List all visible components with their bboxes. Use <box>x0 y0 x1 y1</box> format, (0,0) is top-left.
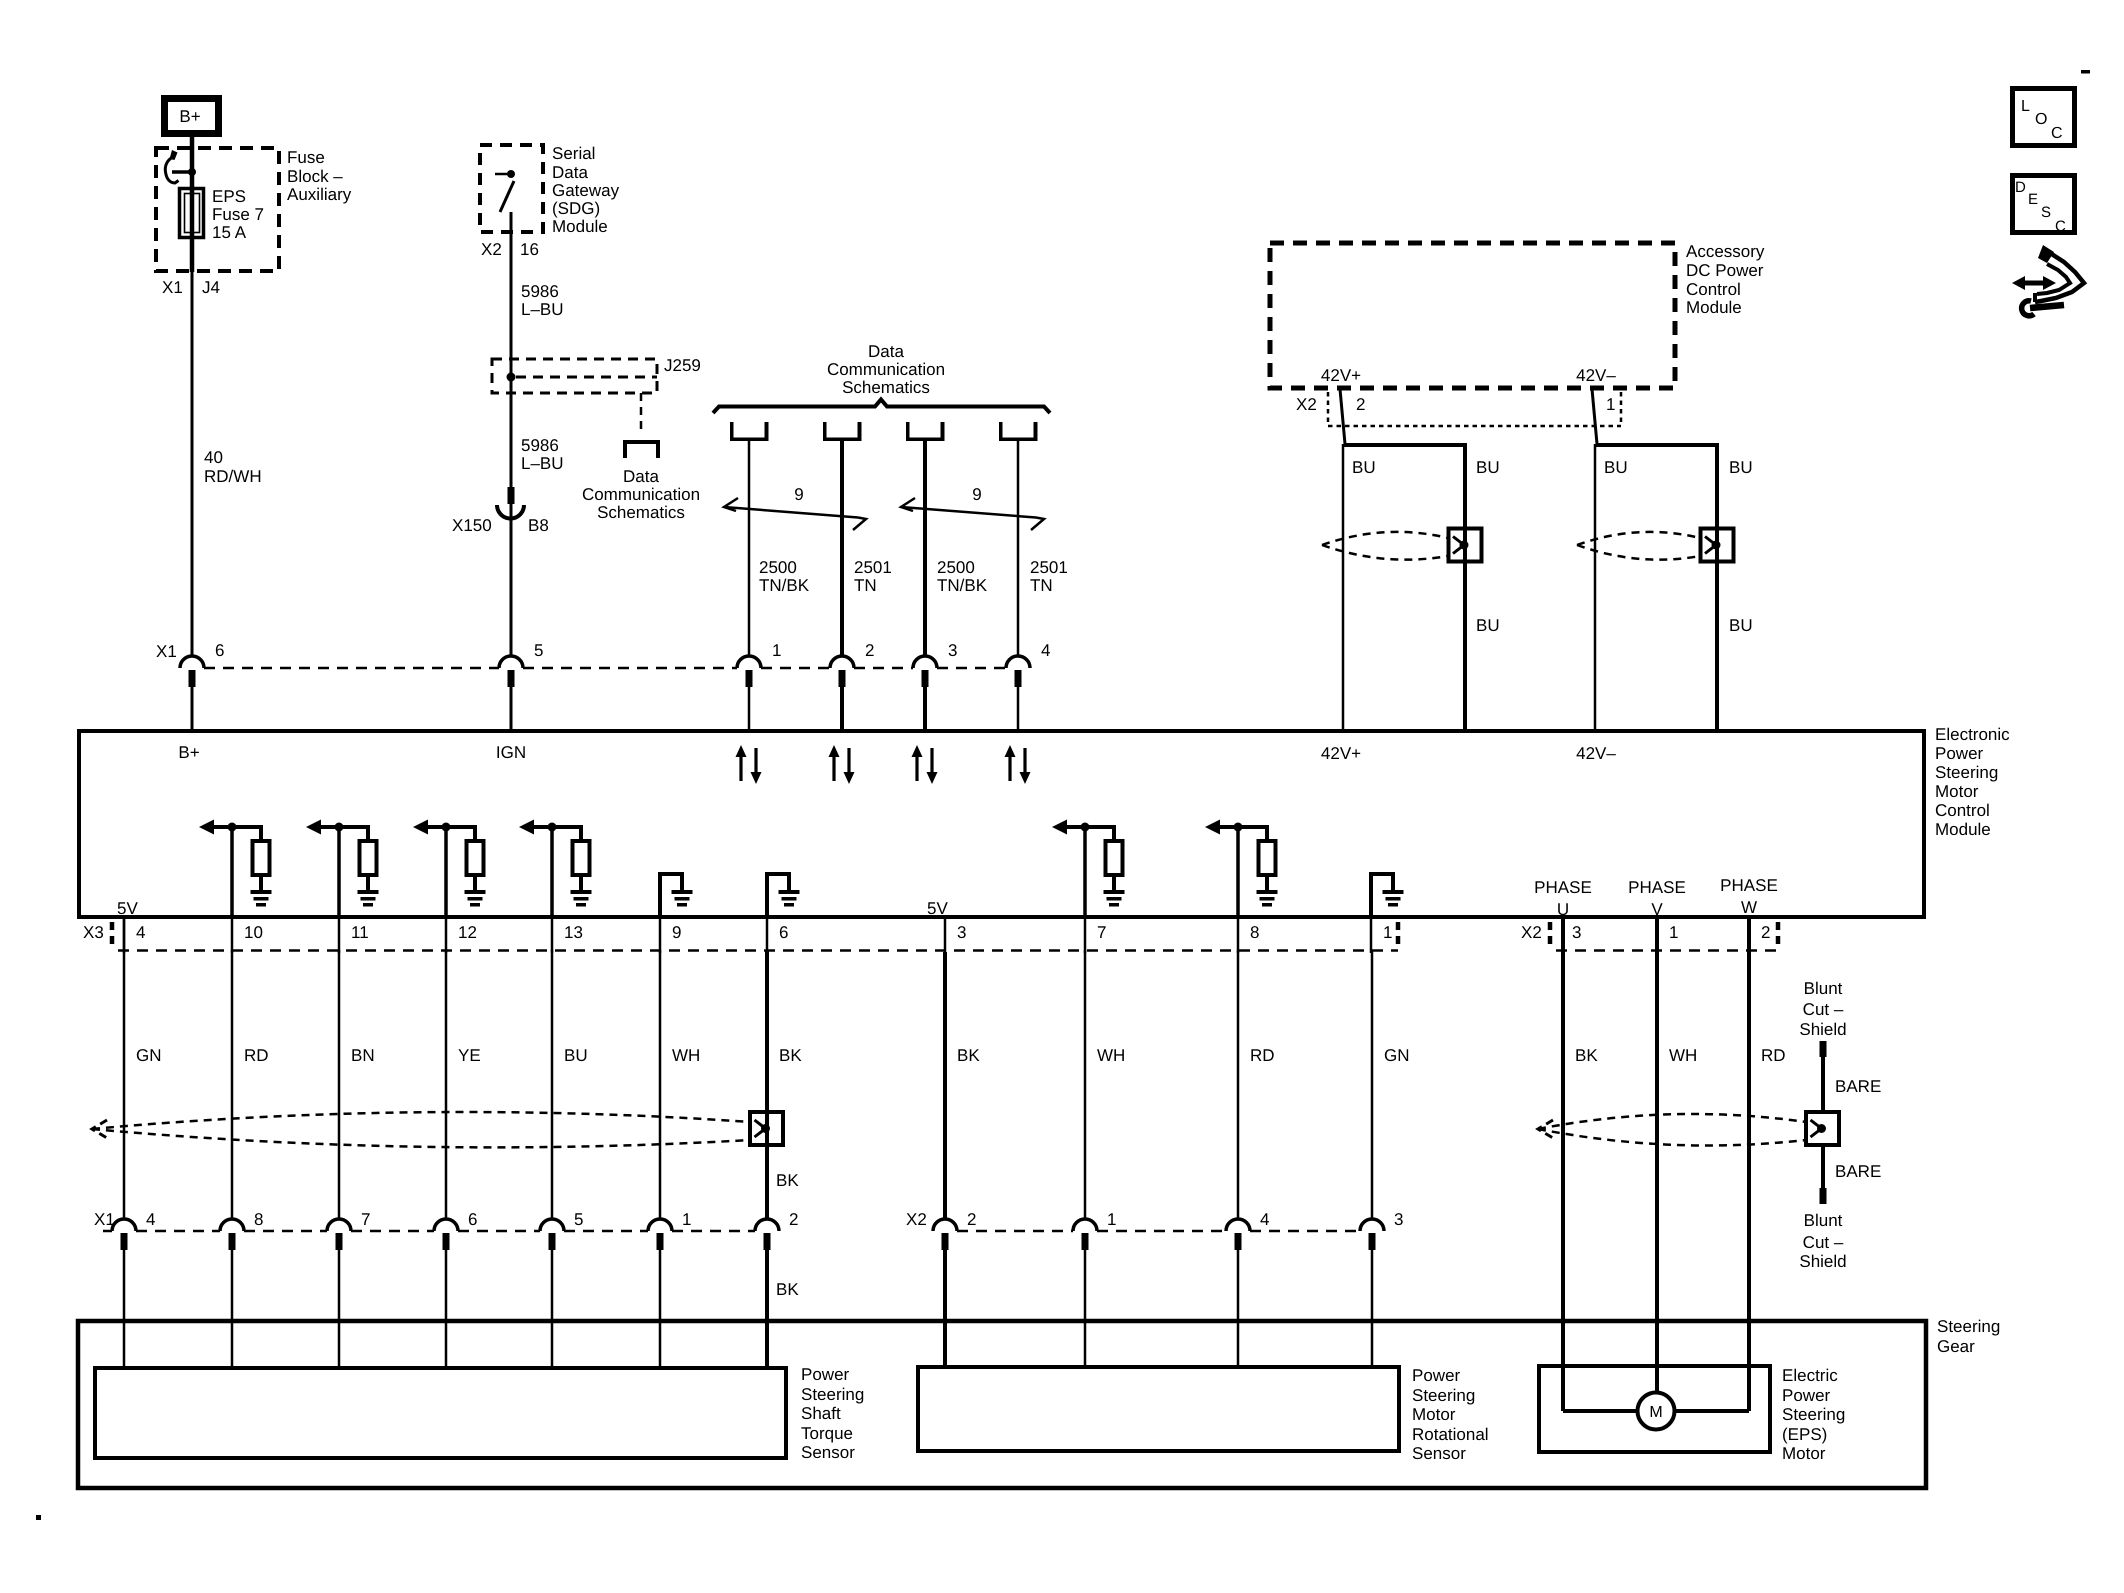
twisted bundle symbol (torque sensor harness) <box>92 1112 750 1129</box>
wire 2500 TN/BK to pin 1 <box>748 441 751 657</box>
svg-text:6: 6 <box>215 641 224 660</box>
svg-text:12: 12 <box>458 923 477 942</box>
svg-text:Serial: Serial <box>552 144 595 163</box>
svg-text:9: 9 <box>672 923 681 942</box>
svg-text:1: 1 <box>1606 395 1615 414</box>
svg-text:7: 7 <box>361 1210 370 1229</box>
serial data in/out arrows, pin 3 <box>915 754 918 781</box>
svg-text:Auxiliary: Auxiliary <box>287 185 352 204</box>
svg-text:15 A: 15 A <box>212 223 247 242</box>
shield/drain connector on 42V- pair <box>1701 529 1734 562</box>
svg-text:6: 6 <box>468 1210 477 1229</box>
svg-text:X1: X1 <box>162 278 183 297</box>
svg-text:Fuse: Fuse <box>287 148 325 167</box>
svg-text:IGN: IGN <box>496 743 526 762</box>
pin stubs into module <box>191 686 194 729</box>
svg-text:4: 4 <box>146 1210 155 1229</box>
svg-text:C: C <box>2051 125 2063 142</box>
svg-text:X2: X2 <box>1296 395 1317 414</box>
connector row X3 under module <box>83 923 104 942</box>
serial data in/out arrows, pin 4 <box>1008 754 1011 781</box>
svg-text:Steering: Steering <box>1412 1386 1475 1405</box>
svg-text:WH: WH <box>1669 1046 1697 1065</box>
svg-text:BK: BK <box>779 1046 802 1065</box>
wire WH from X3 to rotational sensor <box>1084 950 1087 1219</box>
svg-text:Control: Control <box>1686 280 1741 299</box>
svg-text:PHASE: PHASE <box>1534 878 1592 897</box>
LOC reference icon <box>2013 89 2075 146</box>
svg-text:GN: GN <box>136 1046 162 1065</box>
svg-text:2: 2 <box>1761 923 1770 942</box>
accessory DC power control module dashed box <box>1270 243 1675 388</box>
label Data Communication Schematics (top) <box>827 342 945 397</box>
svg-text:1: 1 <box>1669 923 1678 942</box>
svg-text:1: 1 <box>1383 923 1392 942</box>
wire WH phase V <box>1655 919 1659 1366</box>
svg-text:4: 4 <box>1041 641 1050 660</box>
svg-text:TN: TN <box>854 576 877 595</box>
wire labels 2500 TN/BK, 2501 TN <box>759 558 1068 595</box>
svg-text:BK: BK <box>1575 1046 1598 1065</box>
junction node in fuse block <box>188 168 196 176</box>
wire label 5986 L-BU (lower) <box>521 436 564 473</box>
svg-text:EPS: EPS <box>212 187 246 206</box>
svg-text:Module: Module <box>1935 820 1991 839</box>
svg-text:Steering: Steering <box>1782 1405 1845 1424</box>
pin labels 42V+ / 42V- inside accessory module <box>1321 366 1616 385</box>
blunt cut shield drain wire (bottom) <box>1821 1146 1825 1189</box>
svg-text:BU: BU <box>564 1046 588 1065</box>
svg-text:Data: Data <box>868 342 904 361</box>
twisted pair reference arrow 9 (right pair) <box>901 498 915 511</box>
svg-text:Blunt: Blunt <box>1804 979 1843 998</box>
svg-text:2501: 2501 <box>854 558 892 577</box>
serial data gateway (SDG) module dashed box <box>480 145 543 232</box>
svg-text:Steering: Steering <box>801 1385 864 1404</box>
svg-text:B+: B+ <box>178 743 199 762</box>
connector X1 pin 3 <box>913 656 937 668</box>
svg-text:9: 9 <box>972 485 981 504</box>
svg-text:Power: Power <box>1782 1386 1831 1405</box>
wire RD from X3 to rotational sensor <box>1237 950 1240 1219</box>
svg-text:42V–: 42V– <box>1576 366 1616 385</box>
svg-text:O: O <box>2035 111 2047 128</box>
wire 5986 L-BU from SDG X2 pin 16 <box>510 212 513 657</box>
svg-text:Steering: Steering <box>1935 763 1998 782</box>
twisted bundle symbol (phase harness) <box>1538 1114 1806 1129</box>
svg-text:BU: BU <box>1352 458 1376 477</box>
accessory module connector X2 (dotted) with pins 2 and 1 <box>1327 392 1330 424</box>
svg-text:Data: Data <box>552 163 588 182</box>
svg-text:11: 11 <box>351 923 369 942</box>
svg-text:1: 1 <box>772 641 781 660</box>
svg-text:X2: X2 <box>906 1210 927 1229</box>
wire BK from X3 to torque sensor <box>765 950 769 1219</box>
inline connector X150 pin B8 <box>508 487 515 504</box>
X2 bottom row dashed connector line <box>957 1230 1073 1233</box>
svg-text:Electric: Electric <box>1782 1366 1838 1385</box>
connector row X1 (top of EPS module) <box>156 642 177 661</box>
goes-to bracket: Data Communication Schematics <box>625 442 658 458</box>
motor M windings wiring <box>1561 1366 1565 1411</box>
svg-text:4: 4 <box>136 923 145 942</box>
svg-text:5V: 5V <box>927 899 948 918</box>
electric power steering (EPS) motor box <box>1539 1366 1770 1452</box>
shield/drain connector on 42V+ pair <box>1449 529 1482 562</box>
svg-text:Schematics: Schematics <box>597 503 685 522</box>
svg-text:Module: Module <box>1686 298 1742 317</box>
svg-text:X1: X1 <box>156 642 177 661</box>
svg-text:Power: Power <box>801 1365 850 1384</box>
X1 top row dashed connector line <box>204 667 499 670</box>
svg-text:5986: 5986 <box>521 436 559 455</box>
battery feed symbol B+ <box>165 99 219 134</box>
switch inside SDG module <box>495 173 511 176</box>
svg-text:(SDG): (SDG) <box>552 199 600 218</box>
svg-text:Motor: Motor <box>1782 1444 1826 1463</box>
terminal 2 of data comm <box>823 422 827 439</box>
connector row X2 (steering gear, rotational sensor) <box>906 1210 927 1229</box>
svg-text:TN/BK: TN/BK <box>937 576 988 595</box>
svg-text:L: L <box>2021 98 2030 115</box>
steering gear box <box>78 1321 1926 1488</box>
serial data in/out arrows, pin 2 <box>832 754 835 781</box>
phase wire color labels BK WH RD <box>1575 1046 1786 1065</box>
svg-text:J4: J4 <box>202 278 220 297</box>
shield/drain connector on phase bundle <box>1806 1112 1839 1145</box>
electronic power steering motor control module box <box>79 731 1924 917</box>
connector X1 pin 1 <box>737 656 761 668</box>
connector X2 pin 2 <box>933 1219 957 1231</box>
svg-text:Fuse 7: Fuse 7 <box>212 205 264 224</box>
svg-text:J259: J259 <box>664 356 701 375</box>
pull-up resistor with arrow, pin 13 <box>519 820 534 835</box>
interchange arrows + wrench icon <box>2012 276 2056 290</box>
serial data in/out arrows, pin 1 <box>739 754 742 781</box>
svg-text:TN/BK: TN/BK <box>759 576 810 595</box>
svg-text:PHASE: PHASE <box>1720 876 1778 895</box>
terminal 4 of data comm <box>999 422 1003 439</box>
svg-text:2500: 2500 <box>937 558 975 577</box>
svg-text:B+: B+ <box>179 107 200 126</box>
wire BU from X3 to torque sensor <box>551 950 554 1219</box>
svg-text:X150: X150 <box>452 516 492 535</box>
svg-text:Gear: Gear <box>1937 1337 1975 1356</box>
power steering shaft torque sensor box <box>95 1368 786 1458</box>
svg-text:40: 40 <box>204 448 223 467</box>
svg-text:Cut –: Cut – <box>1803 1000 1844 1019</box>
power steering motor rotational sensor box <box>918 1367 1399 1451</box>
svg-text:2500: 2500 <box>759 558 797 577</box>
wire GN from X3 to rotational sensor <box>1371 950 1374 1219</box>
junction node J259 <box>507 373 516 382</box>
wire color labels BK WH RD GN <box>957 1046 1410 1065</box>
stray printing mark top right <box>2081 70 2090 74</box>
X3 pin number labels <box>136 923 1392 942</box>
pull-up resistor with arrow, pin 7 <box>1052 820 1067 835</box>
svg-text:42V+: 42V+ <box>1321 744 1361 763</box>
svg-text:5: 5 <box>574 1210 583 1229</box>
connector X1 pin 4 <box>1006 656 1030 668</box>
svg-text:Communication: Communication <box>827 360 945 379</box>
wire BK phase U <box>1561 919 1565 1366</box>
connector X2 pin 1 <box>1073 1219 1097 1231</box>
wire 2501 TN to pin 2 <box>840 441 844 657</box>
terminal 3 of data comm <box>906 422 910 439</box>
svg-text:BN: BN <box>351 1046 375 1065</box>
svg-text:(EPS): (EPS) <box>1782 1425 1827 1444</box>
svg-text:RD: RD <box>244 1046 269 1065</box>
5V labels <box>117 899 948 918</box>
svg-text:2: 2 <box>1356 395 1365 414</box>
svg-text:2501: 2501 <box>1030 558 1068 577</box>
connector X1 pin 7 <box>327 1219 351 1231</box>
connector X1 pin 5 <box>540 1219 564 1231</box>
phase output labels <box>1534 876 1778 919</box>
svg-text:B8: B8 <box>528 516 549 535</box>
svg-text:8: 8 <box>1250 923 1259 942</box>
module pin name labels <box>178 743 1616 763</box>
svg-text:4: 4 <box>1260 1210 1269 1229</box>
connector X1 pin 2 <box>755 1219 779 1231</box>
svg-text:RD: RD <box>1761 1046 1786 1065</box>
connector X1 pin 2 <box>830 656 854 668</box>
wire 2500 TN/BK to pin 3 <box>923 441 927 657</box>
svg-text:Gateway: Gateway <box>552 181 620 200</box>
svg-text:Communication: Communication <box>582 485 700 504</box>
wire color labels GN RD BN YE BU WH BK <box>136 1046 802 1065</box>
connector X2 pin 4 <box>1226 1219 1250 1231</box>
svg-text:13: 13 <box>564 923 583 942</box>
svg-text:3: 3 <box>1394 1210 1403 1229</box>
svg-text:YE: YE <box>458 1046 481 1065</box>
twisted pair symbol for 42V+ pair <box>1322 532 1448 545</box>
wire RD from X3 to torque sensor <box>231 950 234 1219</box>
twisted pair symbol for 42V- pair <box>1577 532 1700 545</box>
svg-text:Schematics: Schematics <box>842 378 930 397</box>
svg-text:TN: TN <box>1030 576 1053 595</box>
svg-text:BU: BU <box>1729 458 1753 477</box>
svg-text:Motor: Motor <box>1935 782 1979 801</box>
connector row X2 (phases) under module <box>1521 923 1542 942</box>
wire BN from X3 to torque sensor <box>338 950 341 1219</box>
blunt cut shield drain wire (top) <box>1799 979 1846 1039</box>
svg-text:PHASE: PHASE <box>1628 878 1686 897</box>
wire GN from X3 to torque sensor <box>123 919 126 1219</box>
connector X2 pin 3 <box>1360 1219 1384 1231</box>
terminal 1 of data comm <box>730 422 734 439</box>
splice J259 dashed box <box>492 359 657 393</box>
svg-text:S: S <box>2041 204 2051 221</box>
svg-text:X2: X2 <box>1521 923 1542 942</box>
svg-text:L–BU: L–BU <box>521 300 564 319</box>
svg-text:Motor: Motor <box>1412 1405 1456 1424</box>
fuse EPS Fuse 7 15 A <box>180 189 204 238</box>
svg-text:BK: BK <box>957 1046 980 1065</box>
twisted pair reference arrow 9 (left pair) <box>724 498 738 511</box>
svg-text:GN: GN <box>1384 1046 1410 1065</box>
connector X1 pin 6 <box>180 656 204 668</box>
svg-text:5V: 5V <box>117 899 138 918</box>
connector row X1 (steering gear, torque sensor) <box>94 1210 115 1229</box>
svg-text:1: 1 <box>1107 1210 1116 1229</box>
internal ground, pin 9 <box>660 874 682 919</box>
connector X1 pin 4 <box>112 1219 136 1231</box>
svg-text:BARE: BARE <box>1835 1162 1881 1181</box>
brace over data communication terminals <box>713 400 1050 414</box>
svg-text:BARE: BARE <box>1835 1077 1881 1096</box>
svg-text:1: 1 <box>682 1210 691 1229</box>
svg-text:3: 3 <box>1572 923 1581 942</box>
svg-text:Sensor: Sensor <box>1412 1444 1466 1463</box>
internal ground, pin 6 <box>767 874 789 919</box>
svg-text:BU: BU <box>1476 616 1500 635</box>
svg-text:16: 16 <box>520 240 539 259</box>
svg-text:3: 3 <box>948 641 957 660</box>
dashed reference drop from J259 <box>640 393 643 431</box>
svg-text:DC Power: DC Power <box>1686 261 1764 280</box>
svg-text:Data: Data <box>623 467 659 486</box>
svg-text:Steering: Steering <box>1937 1317 2000 1336</box>
fuse clip terminal <box>172 170 192 174</box>
svg-text:L–BU: L–BU <box>521 454 564 473</box>
pin stubs below module (X3) <box>123 917 126 953</box>
svg-text:10: 10 <box>244 923 263 942</box>
stray printing mark bottom left <box>36 1515 41 1520</box>
wire label 40 RD/WH <box>204 448 262 486</box>
svg-text:Sensor: Sensor <box>801 1443 855 1462</box>
svg-text:W: W <box>1741 898 1757 917</box>
svg-text:5: 5 <box>534 641 543 660</box>
svg-text:42V+: 42V+ <box>1321 366 1361 385</box>
svg-text:X3: X3 <box>83 923 104 942</box>
svg-text:Shaft: Shaft <box>801 1404 841 1423</box>
motor M symbol <box>1638 1393 1675 1430</box>
connector X1 pin 6 <box>434 1219 458 1231</box>
wire YE from X3 to torque sensor <box>445 950 448 1219</box>
wire 42V+ BU pair from accessory module <box>1340 389 1345 444</box>
DESC reference icon <box>2013 176 2075 233</box>
svg-text:M: M <box>1649 1404 1662 1421</box>
svg-text:Module: Module <box>552 217 608 236</box>
pull-up resistor with arrow, pin 8 <box>1205 820 1220 835</box>
svg-text:2: 2 <box>865 641 874 660</box>
svg-text:3: 3 <box>957 923 966 942</box>
svg-text:Rotational: Rotational <box>1412 1425 1489 1444</box>
connector X1 pin 1 <box>648 1219 672 1231</box>
svg-text:BU: BU <box>1729 616 1753 635</box>
wire label BK (below X1) <box>776 1280 799 1299</box>
svg-text:Shield: Shield <box>1799 1020 1846 1039</box>
fuse block - auxiliary dashed box <box>156 148 279 271</box>
svg-text:WH: WH <box>672 1046 700 1065</box>
connector X1 pin 8 <box>220 1219 244 1231</box>
wires from X2 into rotational sensor <box>943 1250 947 1367</box>
wire 42V- BU pair from accessory module <box>1592 389 1597 444</box>
svg-text:2: 2 <box>789 1210 798 1229</box>
svg-text:Power: Power <box>1412 1366 1461 1385</box>
svg-text:Control: Control <box>1935 801 1990 820</box>
svg-text:C: C <box>2055 218 2066 235</box>
svg-text:7: 7 <box>1097 923 1106 942</box>
svg-text:8: 8 <box>254 1210 263 1229</box>
svg-text:6: 6 <box>779 923 788 942</box>
wire from B+ through fuse down to connector X1 pin 6 <box>190 137 195 272</box>
wire BK from X3 to rotational sensor <box>943 952 947 1219</box>
svg-text:5986: 5986 <box>521 282 559 301</box>
svg-text:Block –: Block – <box>287 167 343 186</box>
svg-text:RD: RD <box>1250 1046 1275 1065</box>
svg-text:Power: Power <box>1935 744 1984 763</box>
svg-text:V: V <box>1651 900 1663 919</box>
svg-text:E: E <box>2028 191 2038 208</box>
wires from X1 into torque sensor <box>123 1250 126 1368</box>
svg-text:Cut –: Cut – <box>1803 1233 1844 1252</box>
pull-up resistor with arrow, pin 10 <box>199 820 214 835</box>
connector X1 pin 5 <box>499 656 523 668</box>
svg-text:Shield: Shield <box>1799 1252 1846 1271</box>
svg-text:X2: X2 <box>481 240 502 259</box>
internal ground, pin 1 <box>1371 874 1393 919</box>
svg-text:BK: BK <box>776 1171 799 1190</box>
svg-text:Accessory: Accessory <box>1686 242 1765 261</box>
connector labels X1 / J4 under fuse block <box>162 278 220 297</box>
svg-text:42V–: 42V– <box>1576 744 1616 763</box>
svg-text:Electronic: Electronic <box>1935 725 2010 744</box>
svg-text:BU: BU <box>1604 458 1628 477</box>
svg-text:9: 9 <box>794 485 803 504</box>
svg-text:RD/WH: RD/WH <box>204 467 262 486</box>
svg-text:2: 2 <box>967 1210 976 1229</box>
svg-text:BK: BK <box>776 1280 799 1299</box>
svg-text:BU: BU <box>1476 458 1500 477</box>
svg-text:Torque: Torque <box>801 1424 853 1443</box>
wire WH from X3 to torque sensor <box>659 950 662 1219</box>
svg-text:WH: WH <box>1097 1046 1125 1065</box>
pull-up resistor with arrow, pin 12 <box>413 820 428 835</box>
wire 2501 TN to pin 4 <box>1017 441 1020 657</box>
wire RD phase W <box>1747 919 1751 1366</box>
shield/drain connector on BK wire <box>750 1112 783 1145</box>
X1 bottom row dashed connector line <box>103 1230 112 1233</box>
svg-text:Blunt: Blunt <box>1804 1211 1843 1230</box>
svg-text:U: U <box>1557 900 1569 919</box>
pull-up resistor with arrow, pin 11 <box>306 820 321 835</box>
svg-text:D: D <box>2015 179 2026 196</box>
